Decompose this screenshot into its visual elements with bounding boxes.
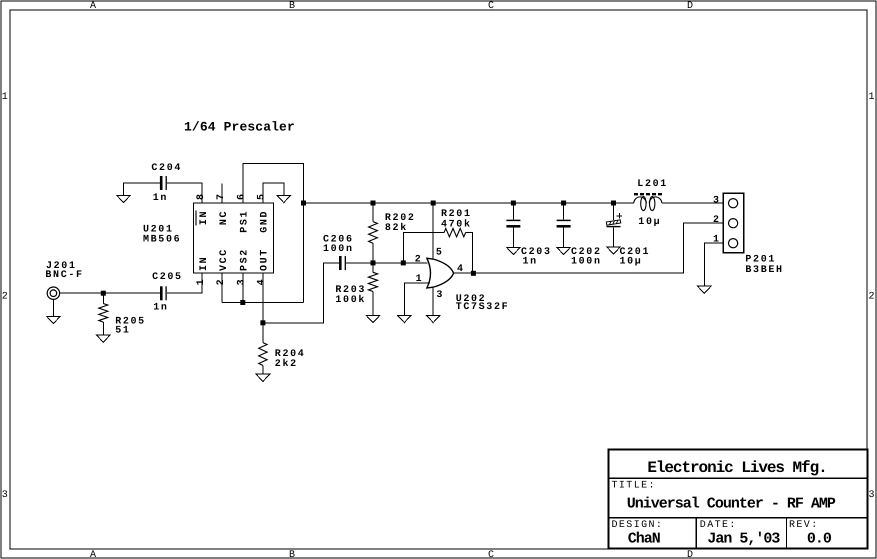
wire J201 to ground bbox=[52, 299, 54, 316]
title block divider above bottom row bbox=[608, 517, 868, 519]
svg-text:DESIGN:: DESIGN: bbox=[612, 520, 664, 531]
svg-text:L201: L201 bbox=[637, 179, 668, 190]
wire U202 pin 5 bbox=[432, 203, 434, 259]
wire C204 left to ground bbox=[124, 183, 160, 195]
title block divider under company bbox=[608, 477, 868, 479]
svg-text:2: 2 bbox=[2, 292, 8, 303]
wire P201 pin 1 to ground bbox=[704, 243, 723, 286]
svg-text:C205: C205 bbox=[152, 272, 183, 283]
svg-text:1: 1 bbox=[713, 235, 719, 246]
node junction R202/rail bbox=[371, 201, 376, 206]
U201 pin 8 overline bbox=[195, 211, 197, 226]
svg-text:NC: NC bbox=[219, 210, 230, 225]
wire U201 pin 7 NC stub bbox=[221, 184, 223, 204]
svg-text:PS1: PS1 bbox=[239, 210, 250, 233]
svg-text:5: 5 bbox=[436, 247, 442, 258]
wire pin4 to C206 bbox=[263, 263, 339, 323]
wire C204 to U201 pin 8 bbox=[167, 183, 202, 203]
svg-text:Universal Counter - RF AMP: Universal Counter - RF AMP bbox=[627, 496, 836, 513]
ground under R204 bbox=[256, 374, 270, 381]
svg-text:100n: 100n bbox=[323, 244, 354, 255]
ground at P201 pin 1 bbox=[698, 286, 712, 293]
ground under C203 bbox=[507, 247, 521, 254]
wire U202 output to P201 pin 2 bbox=[454, 223, 724, 273]
svg-text:C: C bbox=[488, 550, 494, 559]
svg-text:Electronic Lives Mfg.: Electronic Lives Mfg. bbox=[647, 459, 826, 477]
VCC RAIL bbox=[304, 202, 724, 204]
svg-text:2: 2 bbox=[713, 215, 719, 226]
svg-text:B3BEH: B3BEH bbox=[745, 265, 783, 276]
svg-text:OUT: OUT bbox=[260, 248, 271, 271]
node junction J201/R205 bbox=[101, 291, 106, 296]
title block vertical divider 2 bbox=[785, 518, 787, 549]
svg-text:3: 3 bbox=[868, 490, 874, 501]
svg-text:A: A bbox=[90, 550, 96, 559]
resistor R201 bbox=[403, 209, 472, 273]
svg-text:3: 3 bbox=[236, 279, 247, 285]
node junction C206/R202/R203 bbox=[371, 260, 376, 265]
connector P201 B3BEH bbox=[723, 193, 783, 276]
svg-text:A: A bbox=[90, 1, 96, 12]
capacitor C205 bbox=[152, 272, 183, 314]
svg-text:MB506: MB506 bbox=[143, 235, 181, 246]
wire U201 pin 5 to ground bbox=[263, 183, 284, 203]
ground at U202 pin 3 bbox=[426, 315, 440, 322]
svg-text:2k2: 2k2 bbox=[275, 358, 298, 370]
svg-text:2: 2 bbox=[216, 279, 227, 285]
svg-text:IN: IN bbox=[199, 210, 210, 225]
wire U201 pin 6 to VCC rail bbox=[243, 164, 304, 303]
ground under R205 bbox=[97, 335, 111, 342]
svg-text:5: 5 bbox=[257, 194, 268, 200]
ground under C202 bbox=[557, 247, 571, 254]
node junction U202 pin5/rail bbox=[431, 201, 436, 206]
OR gate U202 TC7S32F bbox=[427, 258, 509, 313]
svg-text:1: 1 bbox=[416, 274, 422, 285]
svg-text:0.0: 0.0 bbox=[807, 531, 832, 548]
svg-text:100n: 100n bbox=[571, 257, 602, 268]
svg-text:GND: GND bbox=[260, 210, 271, 233]
svg-text:1: 1 bbox=[196, 279, 207, 285]
capacitor C206 bbox=[323, 235, 354, 270]
svg-text:10µ: 10µ bbox=[638, 217, 661, 228]
svg-text:Jan 5,'03: Jan 5,'03 bbox=[707, 531, 780, 548]
capacitor C203 bbox=[506, 203, 551, 268]
inductor L201 bbox=[634, 179, 668, 228]
node junction pin4/R204 bbox=[260, 320, 265, 325]
ground under R203 bbox=[366, 315, 380, 322]
svg-text:D: D bbox=[687, 550, 693, 559]
capacitor C202 bbox=[557, 203, 602, 268]
svg-text:2: 2 bbox=[415, 255, 421, 266]
title block vertical divider 1 bbox=[695, 518, 697, 549]
resistor R205 bbox=[99, 293, 146, 337]
svg-text:D: D bbox=[687, 1, 693, 12]
svg-text:ChaN: ChaN bbox=[628, 531, 661, 548]
wire U202 pin 3 to ground bbox=[432, 287, 434, 315]
ground under J201 bbox=[47, 316, 61, 323]
svg-text:1n: 1n bbox=[153, 303, 168, 314]
svg-text:VCC: VCC bbox=[219, 248, 230, 271]
node junction R201/pin2 bbox=[401, 260, 406, 265]
svg-text:1: 1 bbox=[868, 92, 874, 103]
node junction pin3/VCC row bbox=[240, 300, 245, 305]
svg-text:82k: 82k bbox=[385, 222, 408, 234]
svg-text:B: B bbox=[289, 1, 295, 12]
ground under C201 bbox=[607, 247, 621, 254]
svg-text:51: 51 bbox=[115, 326, 130, 337]
svg-text:6: 6 bbox=[236, 194, 247, 200]
capacitor C201 polarized bbox=[606, 203, 650, 268]
svg-text:BNC-F: BNC-F bbox=[45, 270, 83, 281]
node junction C203/rail bbox=[511, 201, 516, 206]
svg-text:1: 1 bbox=[2, 92, 8, 103]
svg-text:8: 8 bbox=[196, 194, 207, 200]
svg-text:C204: C204 bbox=[151, 163, 182, 174]
ground at U202 pin 1 bbox=[398, 315, 412, 322]
IC U201 MB506 box bbox=[143, 203, 274, 273]
node junction C201/rail bbox=[611, 201, 616, 206]
node junction R201/output bbox=[471, 271, 476, 276]
wire U202 pin 1 to ground bbox=[404, 283, 430, 315]
title block outer box bbox=[609, 450, 868, 549]
connector J201 BNC-F bbox=[45, 261, 83, 300]
node junction C202/rail bbox=[561, 201, 566, 206]
svg-text:TC7S32F: TC7S32F bbox=[456, 302, 510, 313]
svg-text:7: 7 bbox=[216, 194, 227, 200]
svg-text:1n: 1n bbox=[523, 257, 538, 268]
svg-text:B: B bbox=[289, 550, 295, 559]
ground at U201 pin 5 bbox=[277, 195, 291, 202]
svg-text:3: 3 bbox=[436, 290, 442, 301]
svg-text:2: 2 bbox=[868, 292, 874, 303]
svg-text:470k: 470k bbox=[441, 219, 472, 231]
wire C206 to U202 pin 2 bbox=[346, 262, 428, 264]
node junction pin6/rail bbox=[301, 201, 306, 206]
svg-text:1n: 1n bbox=[153, 193, 168, 204]
svg-text:PS2: PS2 bbox=[239, 248, 250, 271]
svg-text:C: C bbox=[488, 1, 494, 12]
capacitor C204 bbox=[151, 163, 182, 204]
svg-text:4: 4 bbox=[257, 279, 268, 285]
ground under C204 bbox=[117, 195, 131, 202]
svg-text:100k: 100k bbox=[335, 294, 366, 306]
svg-text:IN: IN bbox=[199, 256, 210, 271]
resistor R203 bbox=[335, 263, 377, 316]
wire U201 pin 4 down bbox=[262, 274, 264, 323]
wire VCC row pins 2,3 bbox=[222, 274, 303, 303]
resistor R204 bbox=[259, 323, 306, 374]
svg-text:REV:: REV: bbox=[789, 520, 819, 531]
resistor R202 bbox=[369, 203, 416, 263]
svg-text:1/64 Prescaler: 1/64 Prescaler bbox=[184, 120, 295, 135]
svg-text:TITLE:: TITLE: bbox=[612, 481, 656, 492]
svg-text:10µ: 10µ bbox=[620, 257, 643, 268]
svg-text:DATE:: DATE: bbox=[700, 520, 737, 531]
wire J201 to C205 bbox=[60, 292, 160, 294]
svg-text:3: 3 bbox=[2, 490, 8, 501]
wire C205 to U201 pin 1 bbox=[167, 274, 202, 294]
svg-text:3: 3 bbox=[713, 196, 719, 207]
